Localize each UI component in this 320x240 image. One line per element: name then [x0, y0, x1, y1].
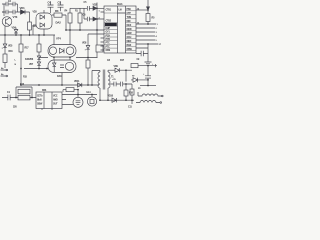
svg-text:R17: R17	[25, 47, 30, 50]
svg-text:C8: C8	[107, 59, 111, 62]
svg-text:CTB1: CTB1	[106, 10, 112, 12]
svg-text:OCH: OCH	[127, 37, 132, 39]
svg-text:TON: TON	[127, 17, 132, 19]
svg-text:KHP: KHP	[106, 28, 111, 30]
svg-text:PSK: PSK	[127, 9, 132, 11]
svg-text:OBS: OBS	[106, 50, 111, 52]
svg-text:CTB2: CTB2	[106, 21, 112, 23]
svg-text:C2: C2	[8, 0, 12, 3]
svg-text:VD10: VD10	[108, 95, 114, 98]
svg-text:R4: R4	[65, 10, 69, 13]
svg-text:PYB: PYB	[106, 39, 111, 41]
svg-text:VD11: VD11	[74, 80, 80, 83]
svg-text:VD1: VD1	[20, 6, 26, 10]
svg-text:DA1: DA1	[117, 2, 123, 6]
svg-text:OBW: OBW	[127, 49, 133, 51]
svg-text:MIN: MIN	[127, 21, 131, 23]
svg-text:CTP: CTP	[127, 13, 132, 15]
svg-text:Bx: Bx	[1, 68, 4, 70]
svg-text:DA3: DA3	[57, 75, 62, 78]
svg-text:VT4: VT4	[56, 37, 61, 41]
svg-text:L: L	[15, 60, 17, 62]
svg-text:R3: R3	[55, 9, 59, 13]
svg-text:MED: MED	[127, 41, 132, 43]
svg-text:MOD: MOD	[127, 29, 132, 31]
svg-text:2: 2	[156, 28, 158, 30]
svg-text:AND: AND	[53, 99, 58, 102]
svg-text:R16: R16	[9, 50, 14, 53]
svg-text:R15: R15	[23, 77, 28, 79]
svg-text:Bx: Bx	[1, 74, 4, 76]
svg-text:220: 220	[13, 106, 17, 109]
svg-text:LIA: LIA	[119, 9, 123, 12]
svg-text:HL1: HL1	[87, 91, 92, 94]
svg-text:3: 3	[156, 32, 158, 34]
svg-text:C5: C5	[84, 1, 88, 4]
svg-text:+C9: +C9	[112, 79, 116, 81]
svg-text:PCH: PCH	[106, 35, 111, 37]
svg-text:VCC: VCC	[53, 96, 58, 98]
svg-text:1: 1	[99, 11, 101, 13]
svg-text:MAX: MAX	[127, 24, 132, 27]
svg-text:L1: L1	[138, 87, 141, 90]
svg-text:VD8: VD8	[82, 42, 87, 45]
svg-text:OBW: OBW	[37, 104, 43, 106]
svg-text:R17: R17	[120, 59, 125, 62]
svg-text:PTC: PTC	[106, 43, 111, 45]
svg-text:VD5: VD5	[8, 45, 13, 48]
svg-text:OUT: OUT	[53, 104, 58, 106]
svg-text:VT3: VT3	[13, 15, 18, 19]
svg-text:5: 5	[156, 40, 158, 42]
svg-text:R1: R1	[75, 11, 79, 13]
svg-text:1: 1	[157, 24, 159, 26]
svg-text:+: +	[143, 74, 145, 76]
svg-text:XT: XT	[159, 44, 162, 46]
svg-text:PTC: PTC	[106, 46, 111, 48]
svg-text:VD6: VD6	[29, 59, 34, 61]
svg-text:C6: C6	[83, 14, 87, 17]
svg-text:C11: C11	[128, 107, 133, 109]
svg-text:C9: C9	[137, 59, 141, 61]
svg-text:4: 4	[156, 35, 158, 38]
svg-text:R18: R18	[129, 93, 134, 95]
svg-text:N: N	[15, 64, 17, 66]
svg-text:R5: R5	[152, 17, 156, 20]
svg-text:BbIX: BbIX	[37, 100, 42, 102]
svg-text:VD3: VD3	[33, 12, 38, 14]
svg-text:XT: XT	[132, 76, 135, 78]
svg-text:BbIX: BbIX	[127, 45, 132, 47]
svg-text:C1: C1	[7, 91, 11, 94]
svg-text:R13: R13	[20, 83, 25, 86]
svg-text:VD7: VD7	[29, 64, 34, 66]
svg-text:VD9: VD9	[114, 65, 119, 68]
svg-text:DA2: DA2	[56, 21, 62, 25]
svg-text:CETb: CETb	[37, 96, 43, 98]
